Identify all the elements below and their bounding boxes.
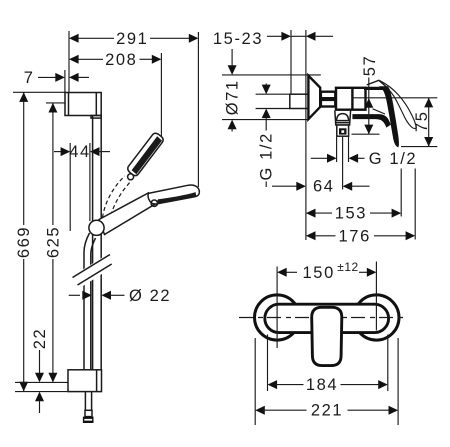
svg-text:Ø71: Ø71 xyxy=(224,79,242,115)
supply pipe (S-union) xyxy=(290,94,309,108)
wire: extension line 153 (x=401.2) xyxy=(400,169,402,217)
dimension 176 xyxy=(306,231,316,240)
wire: bottom extension line rail end (y=382.4) xyxy=(15,381,68,383)
wire: bottom extension line bracket bottom (y=391.6) xyxy=(15,391,68,393)
svg-text:153: 153 xyxy=(335,205,367,223)
dimension 150 ±12 xyxy=(277,268,287,277)
dimension G1/2 (right, at outlet) xyxy=(336,137,338,162)
dimension 291 xyxy=(77,37,115,39)
dimension Ø71 xyxy=(231,49,233,67)
svg-text:G 1/2: G 1/2 xyxy=(369,150,417,168)
dimension 64 xyxy=(272,185,298,187)
wire: left vertical centreline xyxy=(276,267,278,349)
outlet thread dark square xyxy=(339,128,347,134)
dimension Ø22 xyxy=(69,294,80,296)
mixer body block xyxy=(336,88,366,110)
svg-text:22: 22 xyxy=(31,328,49,350)
left escutcheon circle xyxy=(255,295,300,340)
svg-text:291: 291 xyxy=(116,30,148,48)
svg-text:G 1/2: G 1/2 xyxy=(258,132,276,180)
outlet nipple G1/2 xyxy=(337,125,349,136)
svg-text:57: 57 xyxy=(361,55,379,77)
handle pivot tab (thin outline) xyxy=(367,80,387,87)
svg-text:150: 150 xyxy=(303,264,335,282)
svg-text:44: 44 xyxy=(69,143,91,161)
wire: extension line right end of 291 (x=198.4) xyxy=(197,32,199,187)
right escutcheon circle xyxy=(354,295,399,340)
wire: extension line left of 291/208 dims (x=69) xyxy=(68,31,70,92)
wall escutcheon (cone, side view) xyxy=(308,76,320,120)
hose end nut xyxy=(83,417,94,423)
wire: wall reference line (x=305.9) xyxy=(305,30,307,240)
outlet collar xyxy=(335,110,351,125)
rail tube xyxy=(92,116,94,370)
dimension 75 xyxy=(401,146,437,148)
svg-text:184: 184 xyxy=(306,376,338,394)
svg-text:669: 669 xyxy=(15,226,33,258)
handle raised-position outline (thin) xyxy=(379,80,416,128)
wire: wall line over pipe xyxy=(305,94,307,108)
dimension 153 xyxy=(306,209,316,218)
svg-text:75: 75 xyxy=(413,111,431,133)
wire: extension line at 625 top (y=102.9) xyxy=(46,102,66,104)
svg-text:±12: ±12 xyxy=(337,260,358,274)
union nut upper xyxy=(321,92,335,99)
wire: outlet bottom reference line (y=134.2) xyxy=(352,133,380,135)
hook ring on dashed head xyxy=(128,174,134,180)
bottom bracket xyxy=(68,370,102,392)
hook ring on solid head xyxy=(151,200,157,206)
wire: top extension line at rail top (y=92.3) xyxy=(13,91,66,93)
wire: pipe top extension (y=94.2) xyxy=(256,93,290,95)
body divider line xyxy=(351,88,353,110)
hand shower handle (solid, in holder) xyxy=(99,193,156,235)
wire: extension line for 7 dim (x=64.9) xyxy=(64,70,66,92)
handle tongue (front view) xyxy=(312,307,342,365)
hose break symbol xyxy=(70,252,114,292)
handle lever (side view, solid) xyxy=(379,86,399,147)
wire: pipe bottom extension (y=108.5) xyxy=(256,108,290,110)
top bracket xyxy=(65,93,101,119)
hose upper part xyxy=(84,233,90,392)
spray face shading on head xyxy=(157,192,196,203)
dashed-position shower head xyxy=(128,133,164,180)
dashed hand shower handle (upper position) xyxy=(103,176,125,218)
wire: extension line 221 right (x=398.1) xyxy=(397,338,399,425)
dimension 625 xyxy=(52,103,54,225)
wire: extension line 184 left (x=267.5) xyxy=(267,335,269,392)
wire: extension line 221 left (x=255.2) xyxy=(254,338,256,425)
wire: extension line right end of 208 (x=161.4) xyxy=(160,53,162,137)
dimension G1/2 (left, vertical) xyxy=(265,84,267,87)
svg-text:221: 221 xyxy=(311,402,343,420)
wire: Ø71 bottom extension line (y=119.6) xyxy=(222,119,309,121)
wire: pipe-centre reference line (y=97.8) xyxy=(352,97,438,99)
dimension 44 xyxy=(69,143,71,231)
dimension 669 xyxy=(23,92,25,225)
svg-text:208: 208 xyxy=(105,51,137,69)
svg-text:7: 7 xyxy=(24,69,35,87)
svg-text:625: 625 xyxy=(44,226,62,258)
wire: extension line pipe face (x=291) xyxy=(290,30,292,94)
svg-text:15-23: 15-23 xyxy=(213,30,263,48)
union nut lower xyxy=(321,100,335,107)
hose lower part below bracket xyxy=(84,392,86,411)
mixer body bar (front) xyxy=(265,304,389,332)
dimension 184 xyxy=(268,380,278,389)
holder knob on rail xyxy=(89,220,104,235)
dimension 208 xyxy=(77,58,104,60)
svg-text:Ø 22: Ø 22 xyxy=(129,287,171,305)
wire: extension line 176 (x=415.2) xyxy=(414,169,416,240)
hand shower head (solid) xyxy=(148,185,199,204)
wire: Ø71 top extension line (y=74.9) xyxy=(222,74,321,76)
wire: extension line 184 right (x=387.8) xyxy=(387,335,389,392)
dimension 221 xyxy=(255,406,265,415)
body top edge extension xyxy=(364,87,386,90)
handle interior detail line xyxy=(373,109,385,114)
wire: right vertical centreline xyxy=(375,262,377,331)
svg-text:176: 176 xyxy=(339,227,371,245)
hose end collar xyxy=(85,410,92,416)
wire: horizontal centreline (y=317.5) xyxy=(239,317,403,319)
handle base band xyxy=(352,114,391,128)
svg-text:64: 64 xyxy=(313,178,335,196)
